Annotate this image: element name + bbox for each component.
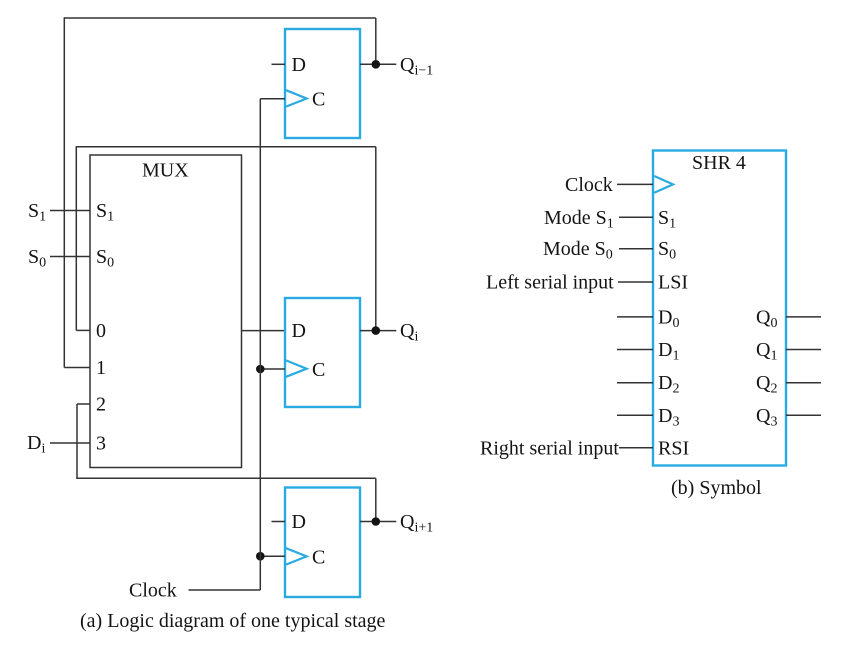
wire: Q1 output stub [786, 349, 821, 351]
SHR pin D3 [658, 405, 679, 430]
wire: U1 C stub [260, 98, 285, 100]
U2 pin C (clock) [286, 359, 325, 381]
node Mode S0 label [543, 238, 613, 263]
SHR pin LSI [658, 272, 688, 294]
wire: Di input [50, 442, 90, 444]
node Mode S1 label [544, 207, 614, 232]
wire: Q(i-1) feedback top horizontal [64, 17, 376, 19]
MUX pin 2 [96, 394, 106, 416]
shift register SHR 4 box [653, 151, 786, 466]
wire: U3 C stub [260, 555, 285, 557]
D flip-flop U3 (stage i+1) [285, 488, 360, 598]
svg-text:MUX: MUX [142, 160, 189, 182]
svg-text:C: C [312, 89, 325, 111]
svg-text:(b) Symbol: (b) Symbol [671, 477, 762, 499]
wire: U3 Q output [360, 521, 396, 523]
svg-text:(a) Logic diagram of one typic: (a) Logic diagram of one typical stage [80, 610, 386, 632]
wire: D3 input stub [617, 414, 653, 416]
junction: Q(i+1) node [372, 517, 381, 526]
svg-text:SHR 4: SHR 4 [692, 152, 746, 174]
wire: Q(i-1) feedback left vertical [63, 17, 65, 367]
U2 pin D [292, 320, 306, 342]
SHR pin D2 [658, 372, 679, 397]
svg-text:Right serial input: Right serial input [480, 437, 619, 459]
MUX pin 1 [96, 357, 106, 379]
D flip-flop U1 (stage i-1) [285, 29, 360, 138]
caption (b) [671, 477, 762, 499]
wire: S0 input [50, 256, 90, 258]
wire: clock vertical trunk [259, 99, 261, 590]
multiplexer MUX box [90, 155, 242, 468]
MUX pin 0 [96, 320, 106, 342]
svg-text:Mode S1: Mode S1 [544, 207, 614, 232]
svg-text:Clock: Clock [565, 174, 613, 196]
wire: Q3 output stub [786, 414, 821, 416]
wire: MUX input 1 stub [64, 367, 90, 369]
wire: U2 C stub [260, 368, 285, 370]
caption (a) [80, 610, 386, 632]
wire: Mode S1 input [619, 216, 653, 218]
svg-text:0: 0 [96, 320, 106, 342]
SHR pin RSI [658, 437, 689, 459]
U1 pin C (clock) [286, 89, 325, 111]
SHR pin S0 [658, 238, 676, 263]
node S0 input label [28, 246, 46, 271]
svg-text:C: C [312, 547, 325, 569]
wire: D0 input stub [617, 316, 653, 318]
svg-text:D: D [292, 511, 306, 533]
wire: D1 input stub [617, 349, 653, 351]
node Q(i+1) label [400, 511, 433, 536]
node Clock label (part a) [129, 580, 177, 602]
svg-text:Left serial input: Left serial input [486, 272, 614, 294]
wire: MUX input 2 stub [77, 403, 90, 405]
MUX pin S0 [96, 246, 114, 271]
wire: Mode S0 input [619, 248, 653, 250]
node Right serial input label [480, 437, 619, 459]
SHR pin S1 [658, 207, 676, 232]
wire: Q(i+1) feedback horizontal [76, 477, 376, 479]
wire: Q(i+1) feedback left vertical [76, 404, 78, 478]
wire: U1 Q output [360, 63, 396, 65]
wire: D2 input stub [617, 382, 653, 384]
wire: clock input (b) [617, 183, 653, 185]
SHR pin Q1 [756, 339, 777, 364]
wire: Q(i) feedback left vertical [75, 146, 77, 330]
svg-text:Mode S0: Mode S0 [543, 238, 613, 263]
D flip-flop U2 (stage i) [285, 298, 360, 407]
svg-text:C: C [312, 359, 325, 381]
wire: U2 Q output [360, 330, 396, 332]
SHR pin Q3 [756, 405, 777, 430]
wire: Q2 output stub [786, 382, 821, 384]
wire: MUX output to FF2 D [242, 330, 286, 332]
svg-text:1: 1 [96, 357, 106, 379]
U3 pin D [272, 511, 306, 533]
SHR pin Q0 [756, 306, 777, 331]
wire: clock horizontal [189, 589, 261, 591]
wire: LSI input [618, 281, 653, 283]
wire: Q(i+1) rise to junction [375, 478, 377, 521]
node Q(i) label [400, 320, 418, 345]
MUX pin 3 [96, 433, 106, 455]
wire: Q(i) drop to junction [375, 147, 377, 331]
wire: MUX input 0 stub [76, 329, 90, 331]
wire: RSI input [619, 447, 653, 449]
svg-text:LSI: LSI [658, 272, 688, 294]
svg-text:D: D [292, 54, 306, 76]
node Left serial input label [486, 272, 614, 294]
node Di input label [27, 432, 45, 457]
MUX pin S1 [96, 200, 114, 225]
svg-text:Clock: Clock [129, 580, 177, 602]
svg-text:3: 3 [96, 433, 106, 455]
SHR pin D1 [658, 339, 679, 364]
SHR pin C (clock triangle) [654, 176, 673, 193]
wire: Q(i-1) drop to junction [375, 18, 377, 64]
junction: Q(i-1) node [372, 60, 381, 69]
node S1 input label [28, 200, 46, 225]
node Q(i-1) label [400, 54, 433, 79]
SHR pin D0 [658, 306, 679, 331]
svg-text:2: 2 [96, 394, 106, 416]
wire: S1 input [50, 210, 90, 212]
SHR pin Q2 [756, 372, 777, 397]
wire: Q0 output stub [786, 316, 821, 318]
junction: clock to U3 [256, 552, 265, 561]
svg-text:RSI: RSI [658, 437, 689, 459]
U3 pin C (clock) [286, 547, 325, 569]
svg-text:D: D [292, 320, 306, 342]
junction: Q(i) node [372, 326, 381, 335]
U1 pin D [272, 54, 306, 76]
node Clock label (part b) [565, 174, 613, 196]
wire: Q(i) feedback horizontal [76, 146, 376, 148]
junction: clock to U2 [256, 365, 265, 374]
